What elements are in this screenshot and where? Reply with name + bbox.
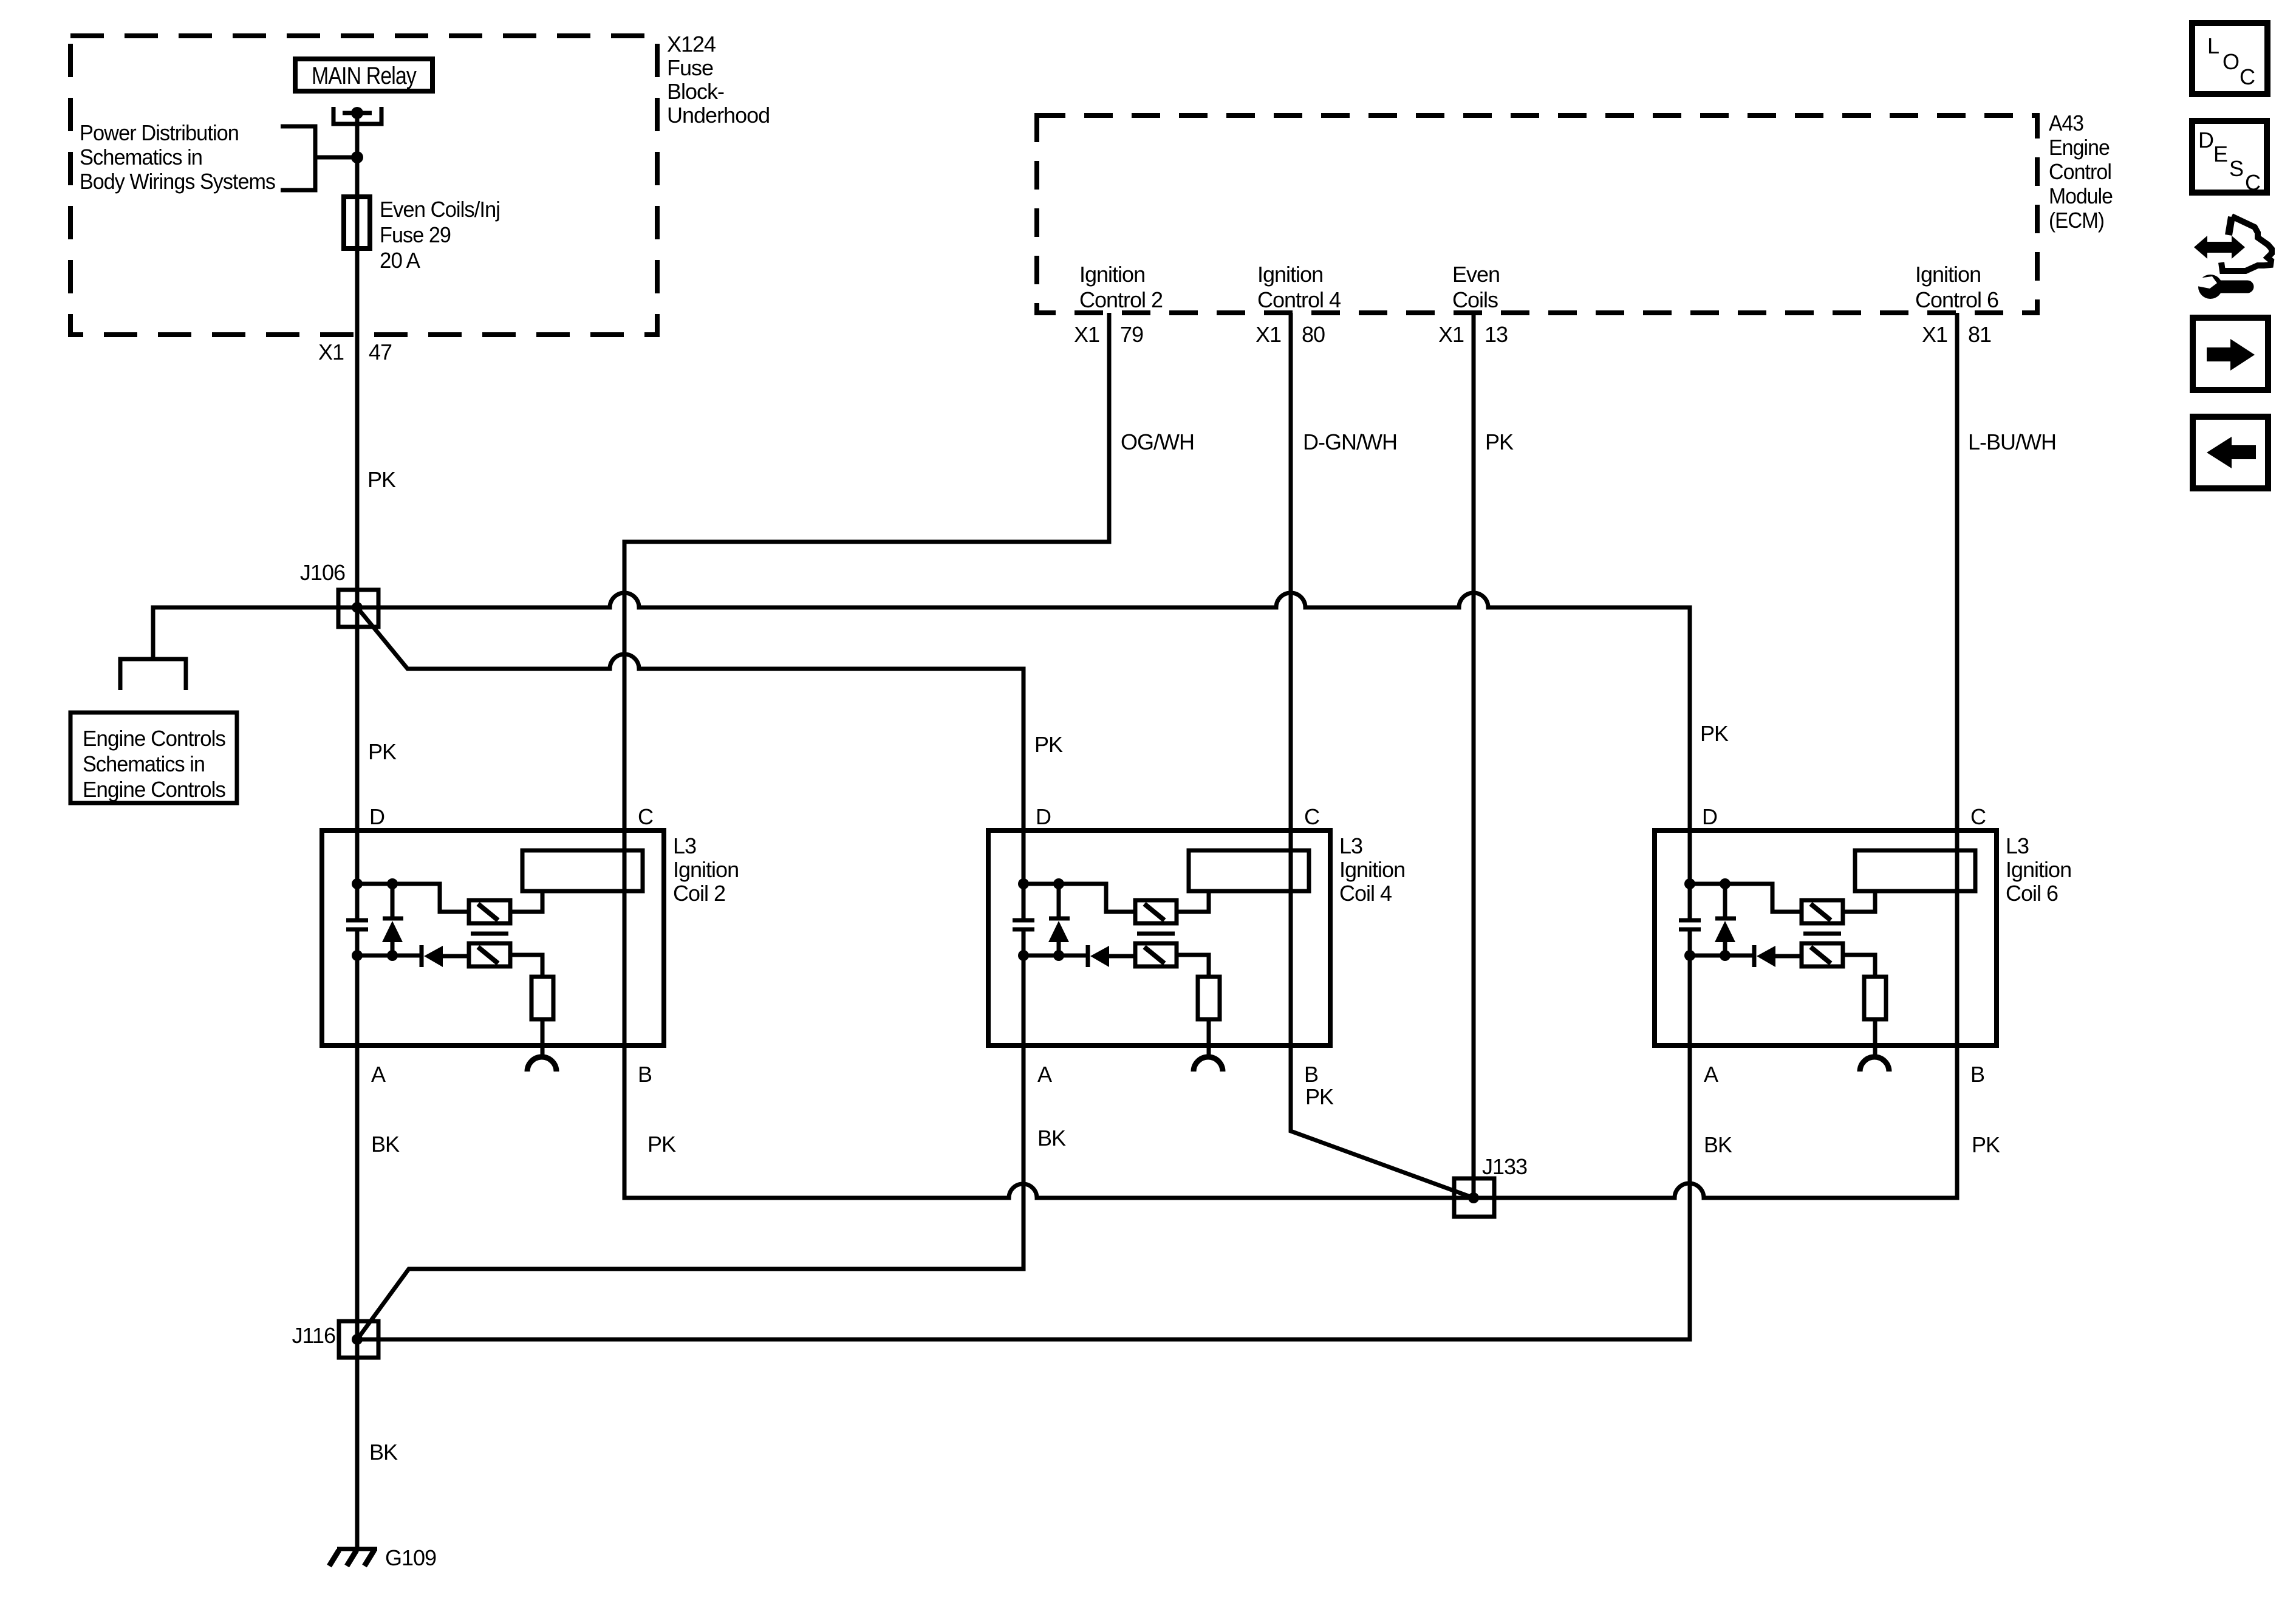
ECM pin label Ignition Control 6 (1915, 262, 1998, 312)
note Engine Controls text (83, 726, 225, 802)
svg-text:Coil 4: Coil 4 (1339, 881, 1392, 906)
wire branch to power distribution bracket (315, 156, 357, 160)
junction J133 box (1454, 1178, 1494, 1217)
svg-text:X124: X124 (667, 32, 716, 56)
svg-text:X1: X1 (1438, 322, 1464, 347)
wire main vertical from relay through fuse to coil 2 node (355, 108, 360, 884)
icon forward arrow box (2193, 318, 2268, 390)
coil 2 bottom internal wire (357, 954, 420, 958)
svg-text:Even Coils/Inj: Even Coils/Inj (380, 197, 500, 222)
ECM pin label Ignition Control 4 (1257, 262, 1341, 312)
svg-text:A: A (371, 1062, 386, 1087)
svg-text:A43: A43 (2049, 111, 2083, 135)
svg-text:D: D (1702, 804, 1717, 829)
svg-text:Power Distribution: Power Distribution (80, 120, 239, 145)
svg-text:Schematics in: Schematics in (80, 145, 202, 169)
coil 6 pin D label (1702, 804, 1717, 829)
coil 4 pin C label (1304, 804, 1319, 829)
junction J116 label (292, 1323, 335, 1348)
secondary winding coil 6 (1802, 943, 1843, 966)
wire ignition control 2 OG/WH to coil 2 pin C (624, 313, 1109, 1045)
coil 4 pin B label (1304, 1062, 1318, 1087)
svg-text:PK: PK (1972, 1132, 2000, 1157)
ECM pin label Ignition Control 2 (1079, 262, 1163, 312)
zener diode coil 2 (382, 884, 403, 955)
svg-text:Engine: Engine (2049, 135, 2110, 160)
wire even coils PK to J133 (1472, 313, 1476, 1198)
svg-text:X1: X1 (1256, 322, 1281, 347)
wire label PK coil 6 (1972, 1132, 2000, 1157)
svg-text:D: D (369, 804, 384, 829)
ECM A43 dashed box (1037, 115, 2037, 313)
svg-text:Control 4: Control 4 (1257, 287, 1341, 312)
ECM pin label Even Coils (1452, 262, 1500, 312)
secondary winding coil 4 (1135, 943, 1177, 966)
junction J116 box (339, 1321, 378, 1358)
ECM pin X1 81 (1922, 322, 1991, 347)
svg-text:A: A (1704, 1062, 1718, 1087)
note Engine Controls box (70, 713, 237, 803)
junction J106 label (300, 560, 345, 585)
diode coil 2 (422, 945, 469, 967)
diode coil 6 (1754, 945, 1802, 967)
svg-text:Coils: Coils (1452, 287, 1498, 312)
svg-text:X1: X1 (1922, 322, 1947, 347)
secondary block coil 2 (522, 850, 643, 891)
coil 2 top internal wire (357, 884, 469, 912)
coil 6 node D top (1684, 878, 1695, 889)
wire coil 4 pin A to J116 (357, 955, 1023, 1339)
fuse label (380, 197, 500, 273)
wire label PK (coil 4 feed) (1034, 732, 1063, 757)
svg-text:Even: Even (1452, 262, 1500, 287)
junction J116 dot (352, 1334, 363, 1345)
svg-text:PK: PK (647, 1132, 676, 1157)
primary winding coil 4 (1135, 900, 1177, 923)
ground G109 symbol (329, 1549, 377, 1566)
coil 4 name label (1339, 833, 1405, 906)
wire label OG/WH (1121, 429, 1194, 454)
wire winding to secondary block coil 4 (1177, 889, 1209, 912)
fuse F29 Even Coils/Inj 20A (344, 197, 370, 248)
svg-text:G109: G109 (385, 1545, 436, 1570)
junction dot below relay (351, 151, 363, 163)
coil 2 node top right (387, 878, 398, 889)
wire label BK coil 4 (1037, 1126, 1066, 1150)
wire winding to secondary block coil 6 (1843, 889, 1875, 912)
ECM pin X1 13 (1438, 322, 1508, 347)
svg-text:BK: BK (1704, 1132, 1732, 1157)
zener diode coil 4 (1048, 884, 1070, 955)
icon hand tool (2194, 216, 2272, 299)
coil 6 top internal wire (1690, 884, 1802, 912)
svg-text:Body Wirings Systems: Body Wirings Systems (80, 169, 275, 194)
svg-text:PK: PK (1305, 1084, 1334, 1109)
svg-text:B: B (1304, 1062, 1318, 1087)
svg-text:Fuse 29: Fuse 29 (380, 222, 451, 247)
svg-text:Coil 6: Coil 6 (2006, 881, 2058, 906)
junction J106 dot (352, 602, 363, 613)
coil 6 bottom internal wire (1690, 954, 1753, 958)
wire coil 6 pin A to J116 (358, 955, 1690, 1339)
wire resistor to spark output coil 2 (541, 1019, 545, 1059)
coil 6 name label (2006, 833, 2071, 906)
junction J133 label (1482, 1154, 1527, 1179)
wire winding to resistor coil 6 (1843, 955, 1875, 977)
wire label BK coil 6 (1704, 1132, 1732, 1157)
wire winding to resistor coil 4 (1177, 955, 1209, 977)
svg-text:C: C (2240, 64, 2255, 89)
junction J106 box (338, 590, 378, 627)
core bar coil 4 (1137, 932, 1175, 936)
coil 4 node top right (1053, 878, 1064, 889)
svg-text:Ignition: Ignition (1339, 857, 1405, 882)
coil 4 node D top (1018, 878, 1029, 889)
svg-text:L3: L3 (673, 833, 696, 858)
connector fork to Engine Controls (120, 659, 186, 690)
coil 2 node A bottom (352, 950, 363, 961)
svg-text:Coil 2: Coil 2 (673, 881, 725, 906)
fuse block X124 dashed box (70, 36, 657, 335)
capacitor coil 6 (1679, 884, 1701, 955)
svg-text:Control 2: Control 2 (1079, 287, 1163, 312)
svg-text:L: L (2207, 33, 2219, 58)
relay pin terminal symbol (333, 107, 381, 124)
svg-text:OG/WH: OG/WH (1121, 429, 1194, 454)
MAIN Relay box (295, 59, 432, 91)
ignition coil 6 box (1655, 830, 1997, 1045)
svg-text:S: S (2229, 156, 2243, 181)
spark plug gap coil 2 (527, 1057, 556, 1072)
secondary block coil 4 (1189, 850, 1309, 891)
wire label PK coil 2 (647, 1132, 676, 1157)
svg-text:D: D (1036, 804, 1051, 829)
svg-text:Schematics in: Schematics in (83, 751, 205, 776)
svg-text:80: 80 (1302, 322, 1325, 347)
svg-text:PK: PK (1485, 429, 1514, 454)
svg-text:20 A: 20 A (380, 248, 420, 273)
ignition coil 4 box (988, 830, 1330, 1045)
svg-text:C: C (1970, 804, 1986, 829)
bracket to Power Distribution note (281, 126, 315, 190)
svg-text:C: C (638, 804, 653, 829)
fuse block X124 label (667, 32, 770, 128)
svg-text:X1: X1 (1074, 322, 1099, 347)
wire resistor to spark output coil 6 (1873, 1019, 1877, 1059)
wire label D-GN/WH (1303, 429, 1397, 454)
wire label L-BU/WH (1968, 429, 2056, 454)
svg-text:79: 79 (1120, 322, 1143, 347)
svg-text:Ignition: Ignition (1079, 262, 1145, 287)
coil 4 pin A label (1037, 1062, 1052, 1087)
svg-text:Ignition: Ignition (673, 857, 739, 882)
svg-text:BK: BK (1037, 1126, 1066, 1150)
svg-text:PK: PK (368, 739, 397, 764)
wire label BK (ground leg) (369, 1440, 398, 1465)
svg-text:L-BU/WH: L-BU/WH (1968, 429, 2056, 454)
coil 4 pin D label (1036, 804, 1051, 829)
secondary block coil 6 (1855, 850, 1975, 891)
wire coil 2 pin A to ground G109 (355, 955, 360, 1549)
svg-text:L3: L3 (2006, 833, 2029, 858)
coil 4 bottom internal wire (1023, 954, 1087, 958)
resistor coil 6 (1864, 977, 1886, 1019)
svg-text:D-GN/WH: D-GN/WH (1303, 429, 1397, 454)
svg-text:47: 47 (369, 340, 392, 364)
svg-text:A: A (1037, 1062, 1052, 1087)
svg-text:X1: X1 (318, 340, 344, 364)
primary winding coil 2 (469, 900, 510, 923)
zener diode coil 6 (1715, 884, 1736, 955)
svg-text:Underhood: Underhood (667, 103, 770, 128)
capacitor coil 2 (346, 884, 368, 955)
svg-text:Engine Controls: Engine Controls (83, 777, 225, 802)
wire winding to resistor coil 2 (510, 955, 542, 977)
svg-text:L3: L3 (1339, 833, 1362, 858)
svg-text:Module: Module (2049, 183, 2113, 208)
svg-text:B: B (1970, 1062, 1984, 1087)
ECM pin X1 79 (1074, 322, 1143, 347)
icon LOC box (2192, 23, 2267, 94)
note Power Distribution text (80, 120, 275, 194)
svg-text:(ECM): (ECM) (2049, 208, 2104, 233)
svg-text:BK: BK (369, 1440, 398, 1465)
wire A: J106 to coil 6 pin D with hops (153, 593, 1690, 884)
ignition coil 2 box (322, 830, 664, 1045)
core bar coil 2 (471, 932, 508, 936)
svg-text:Engine Controls: Engine Controls (83, 726, 225, 751)
svg-text:Ignition: Ignition (1257, 262, 1323, 287)
svg-text:PK: PK (1034, 732, 1063, 757)
spark plug gap coil 6 (1860, 1057, 1889, 1072)
junction J133 dot (1468, 1192, 1479, 1203)
spark plug gap coil 4 (1194, 1057, 1223, 1072)
wire ignition control 6 L-BU/WH to coil 6 pin C (1955, 313, 1959, 1045)
ECM pin X1 80 (1256, 322, 1325, 347)
coil 6 node bottom right (1720, 950, 1731, 961)
coil 2 name label (673, 833, 739, 906)
icon DESC box (2192, 121, 2267, 195)
coil 2 node D top (352, 878, 363, 889)
coil 2 node bottom right (387, 950, 398, 961)
resistor coil 2 (531, 977, 553, 1019)
svg-text:D: D (2198, 128, 2213, 152)
coil 2 pin C label (638, 804, 653, 829)
wire ignition control 4 D-GN/WH to coil 4 pin C (1289, 313, 1293, 1045)
icon back arrow box (2193, 417, 2268, 488)
wire label PK coil 4 (1305, 1084, 1334, 1109)
svg-text:E: E (2213, 142, 2227, 166)
wire label PK (fuse output) (367, 467, 396, 492)
svg-text:MAIN Relay: MAIN Relay (312, 63, 417, 89)
svg-text:PK: PK (367, 467, 396, 492)
coil 4 node bottom right (1053, 950, 1064, 961)
svg-text:Control 6: Control 6 (1915, 287, 1998, 312)
svg-text:J116: J116 (292, 1323, 335, 1348)
coil 4 node A bottom (1018, 950, 1029, 961)
svg-text:J133: J133 (1482, 1154, 1527, 1179)
coil 6 pin C label (1970, 804, 1986, 829)
svg-text:Ignition: Ignition (1915, 262, 1981, 287)
wire PK bus coil 2 B to coil 6 B with hops (624, 1045, 1957, 1198)
connector pin label X1 47 (318, 340, 392, 364)
secondary winding coil 2 (469, 943, 510, 966)
resistor coil 4 (1198, 977, 1220, 1019)
svg-text:Ignition: Ignition (2006, 857, 2071, 882)
svg-text:J106: J106 (300, 560, 345, 585)
svg-text:13: 13 (1485, 322, 1508, 347)
primary winding coil 6 (1802, 900, 1843, 923)
ECM label A43 (2049, 111, 2113, 233)
coil 2 pin A label (371, 1062, 386, 1087)
wire B: J106 diagonal to coil 4 pin D with hop (357, 607, 1023, 884)
wire label PK (below J106) (368, 739, 397, 764)
coil 6 pin A label (1704, 1062, 1718, 1087)
wire label BK coil 2 (371, 1132, 400, 1157)
svg-text:Control: Control (2049, 159, 2111, 184)
coil 2 pin B label (638, 1062, 652, 1087)
wire label PK (even coils) (1485, 429, 1514, 454)
coil 4 top internal wire (1023, 884, 1135, 912)
svg-text:Block-: Block- (667, 79, 724, 104)
svg-text:PK: PK (1700, 721, 1729, 746)
svg-text:O: O (2223, 49, 2239, 74)
wire coil 4 pin B diagonal to J133 (1291, 1045, 1474, 1198)
svg-text:C: C (1304, 804, 1319, 829)
svg-text:C: C (2245, 170, 2260, 195)
capacitor coil 4 (1013, 884, 1034, 955)
coil 6 pin B label (1970, 1062, 1984, 1087)
coil 6 node top right (1720, 878, 1731, 889)
svg-text:Fuse: Fuse (667, 55, 713, 80)
diode coil 4 (1088, 945, 1135, 967)
coil 6 node A bottom (1684, 950, 1695, 961)
wire resistor to spark output coil 4 (1207, 1019, 1211, 1059)
coil 2 pin D label (369, 804, 384, 829)
svg-text:B: B (638, 1062, 652, 1087)
ground G109 label (385, 1545, 436, 1570)
svg-text:BK: BK (371, 1132, 400, 1157)
svg-text:81: 81 (1968, 322, 1991, 347)
wire winding to secondary block coil 2 (510, 889, 542, 912)
core bar coil 6 (1803, 932, 1841, 936)
wire label PK (coil 6 feed) (1700, 721, 1729, 746)
